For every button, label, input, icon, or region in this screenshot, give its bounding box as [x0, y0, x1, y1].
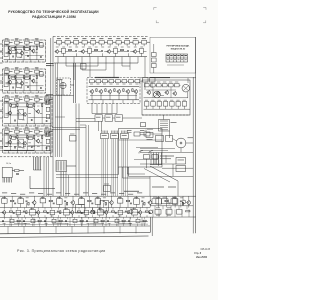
transistor VT19 [108, 89, 112, 94]
wire [166, 202, 168, 208]
tuned circuit box Z39 [114, 48, 118, 53]
PA value label 5 [176, 99, 179, 102]
band box Q15 [98, 210, 104, 215]
band label Q5 [30, 207, 34, 210]
bundle drop wire [47, 157, 49, 196]
wire [76, 53, 78, 56]
capacitor C25 [180, 200, 182, 203]
harness wire [111, 104, 113, 114]
lead [152, 106, 154, 109]
wire [146, 215, 148, 217]
wire [81, 217, 83, 226]
low label r 6 [38, 222, 41, 225]
wire [139, 208, 141, 210]
wire [98, 215, 100, 217]
PA resistor box 1 [151, 102, 155, 107]
capacitor C14 [101, 49, 103, 52]
screening can left A4 [4, 134, 8, 147]
wire [8, 49, 10, 59]
mesh wire [13, 106, 32, 108]
ladder trimmer box [46, 114, 50, 118]
filter can ZA24 [35, 70, 39, 73]
wire [132, 100, 134, 104]
wire [138, 41, 141, 43]
comb drop wire [115, 139, 117, 196]
wire [88, 217, 90, 219]
label above P8 [57, 196, 61, 199]
wire [135, 93, 137, 100]
right band lower wire [158, 209, 160, 217]
capacitor C26 [13, 212, 15, 215]
wire [101, 80, 103, 82]
filter can ZA43 [25, 130, 29, 133]
lead wire [6, 101, 8, 103]
lead [135, 44, 137, 46]
wire [12, 170, 14, 172]
wire [81, 57, 83, 70]
resistor R14 [34, 104, 35, 107]
wire [46, 94, 53, 96]
wire [65, 57, 67, 66]
svg-text:РУКОВОДСТВО ПО ТЕХНИЧЕСКОЙ ЭКС: РУКОВОДСТВО ПО ТЕХНИЧЕСКОЙ ЭКСПЛУАТАЦИИ [8, 10, 99, 14]
mesh wire [25, 85, 44, 87]
value label row2-9 [114, 46, 117, 49]
wire [62, 89, 64, 95]
wire [94, 80, 96, 82]
transistor VT3 [31, 49, 35, 54]
wire [56, 174, 118, 176]
info table columns [170, 54, 184, 62]
transistor VT10 [8, 140, 12, 145]
keying relay box K6 [146, 133, 153, 138]
vertical harness wire [85, 125, 87, 196]
wire [0, 51, 3, 53]
capacitor C20 [91, 202, 93, 205]
wire [163, 115, 165, 120]
filter can ZA33 [25, 98, 29, 101]
resistor R54 [143, 220, 146, 221]
screening can left A3 [4, 102, 8, 118]
connector comb XS1 body [101, 133, 109, 138]
wire [130, 41, 133, 43]
value label 9 [64, 196, 67, 199]
wire [36, 78, 38, 90]
label above P23 [173, 196, 177, 199]
choke box L21 [95, 115, 103, 122]
wire [16, 124, 18, 126]
filter can ZA44 [35, 130, 39, 133]
contact group K2.1 [149, 150, 153, 153]
wire [81, 223, 83, 226]
wire [75, 63, 77, 103]
resistor R20 [42, 136, 43, 139]
transistor VT14 [81, 49, 85, 54]
lead wire [16, 73, 18, 75]
band ground tick [55, 226, 57, 233]
wire [105, 208, 107, 210]
PA value label 3 [164, 99, 167, 102]
resistor R47 [145, 211, 148, 212]
ladder trimmer box [46, 132, 50, 136]
designator above U9 [125, 37, 129, 40]
bundle drop wire [43, 157, 45, 196]
capacitor C6 [39, 87, 42, 89]
svg-text:025-1145: 025-1145 [200, 249, 210, 251]
value label in A2 [25, 81, 28, 84]
wire [10, 215, 12, 217]
lead wire [36, 133, 38, 135]
comb drop wire [126, 139, 128, 196]
tuned circuit box Z31 [62, 48, 66, 53]
wire [116, 217, 118, 219]
wire [26, 203, 28, 208]
wire [113, 117, 116, 119]
switch hatch [57, 161, 65, 170]
connector pin comb [3, 178, 12, 183]
choke box L23 [115, 115, 123, 122]
wire [30, 208, 32, 210]
PA stage box U20 [145, 84, 150, 87]
wire [37, 208, 39, 210]
wire [58, 196, 60, 198]
wire [127, 202, 129, 208]
ground bus of A4 [4, 150, 51, 152]
wire [144, 223, 146, 226]
PA bottom dashed [142, 114, 190, 116]
wire [78, 215, 80, 217]
band jog wire 3 [90, 223, 104, 225]
wire [0, 132, 3, 134]
capacitor C30 [81, 212, 83, 215]
wire [9, 217, 11, 226]
wire [104, 51, 107, 53]
svg-text:14,5в: 14,5в [6, 163, 11, 165]
audio module title [95, 77, 119, 78]
wire [162, 206, 164, 210]
wire [109, 93, 111, 100]
svg-text:РЕГУЛИРОВКА ВЫХОДН.: РЕГУЛИРОВКА ВЫХОДН. [166, 44, 190, 47]
relay coil K1 [134, 132, 140, 136]
capacitor C35 [2, 219, 4, 222]
capacitor C8 [30, 119, 33, 121]
wire [111, 51, 114, 53]
coupling box A3 [45, 100, 49, 104]
wire [127, 93, 129, 100]
transistor VT16 [133, 49, 137, 54]
power connector box X1 [2, 168, 12, 178]
frame right-end vertical 2 [151, 217, 153, 236]
resistor R41 [43, 211, 46, 212]
harness wire [106, 104, 108, 114]
designator label above ZA35 [45, 94, 49, 97]
wire [43, 124, 45, 126]
wire [118, 167, 120, 175]
value label row2-7 [101, 46, 104, 49]
band label Q20 [132, 207, 136, 210]
wire [3, 215, 5, 217]
wire [38, 60, 40, 62]
coupling box A1 [40, 43, 44, 47]
wire [123, 217, 125, 219]
resistor R12 [17, 104, 18, 107]
wire [147, 41, 150, 43]
inter-block wire [46, 62, 54, 64]
band box Q10 [64, 210, 70, 215]
diag wire 2 [29, 48, 32, 51]
wire [19, 99, 22, 101]
band low label 13 [87, 222, 90, 225]
supply bus of A4 [4, 134, 51, 136]
wire [95, 217, 97, 219]
resistor R5 [36, 47, 37, 50]
wire [25, 124, 27, 126]
filter box Z40 [144, 155, 150, 159]
wire [153, 44, 155, 53]
band stage box P13 [95, 199, 101, 205]
PA label 5 [175, 81, 178, 84]
mesh wire [6, 114, 24, 116]
info table midline [166, 57, 188, 59]
schematic right border [195, 37, 197, 233]
PA resistor box 5 [176, 102, 180, 107]
resistor R29 [11, 200, 14, 201]
resistor R45 [111, 211, 114, 212]
wire [119, 139, 163, 141]
lead wire [26, 44, 28, 46]
wire [62, 41, 65, 43]
capacitor C3 [39, 56, 42, 58]
resistor R22 [95, 49, 98, 50]
harness bend wire [92, 113, 117, 115]
battery box GB1 [176, 158, 186, 165]
wire [41, 106, 43, 123]
capacitor C4 [12, 87, 15, 89]
RF stage box U10 [133, 40, 138, 44]
capacitor C9 [45, 120, 48, 122]
mesh wire [13, 136, 32, 138]
ladder trimmer box [46, 139, 50, 143]
wire [167, 84, 168, 86]
wire [38, 91, 40, 93]
resistor R9 [29, 76, 30, 79]
wire [0, 109, 3, 111]
second row box A2b [25, 77, 29, 80]
band box Q20 [132, 210, 138, 215]
band heading label [124, 191, 139, 192]
resistor R7 [15, 76, 16, 79]
wire [139, 214, 141, 217]
PA stage box U24 [169, 84, 174, 87]
wire [88, 196, 90, 200]
cable bend [34, 169, 42, 171]
wire [78, 51, 81, 53]
wire [119, 208, 121, 210]
wire [14, 78, 16, 90]
wire [128, 173, 146, 175]
wire [136, 147, 158, 149]
PA stage box U23 [163, 84, 168, 87]
cable bundle wire [40, 157, 42, 170]
wire [154, 159, 156, 164]
band label Q13b [84, 215, 87, 218]
vertical bus wire [50, 38, 52, 157]
spot label [22, 119, 24, 122]
transistor VT32 [2, 210, 6, 215]
audio bus wire [89, 85, 140, 87]
cable bundle wire [33, 157, 35, 170]
value label row2-13 [140, 46, 143, 49]
comb drop wire [105, 139, 107, 196]
wire [151, 82, 153, 88]
bottom band top bus [0, 195, 196, 197]
label stack a2 [127, 131, 132, 134]
connector comb XS2 teeth [112, 131, 118, 134]
IF transformer TA1 [17, 49, 22, 57]
PA mesh vert [152, 87, 154, 98]
audio stage box N1 [90, 80, 95, 83]
band right bus [150, 205, 193, 207]
resistor R25 [105, 89, 106, 92]
wire [67, 165, 77, 167]
wire [64, 208, 66, 210]
wire [3, 203, 5, 207]
band low label 19 [129, 222, 132, 225]
wire [3, 214, 5, 217]
resistor R33 [88, 200, 91, 201]
wire [89, 53, 91, 56]
supply bus of A2 [4, 74, 45, 76]
wire [82, 69, 106, 71]
wire [39, 42, 42, 44]
wire [69, 217, 71, 226]
capacitor C36 [23, 219, 25, 222]
low label r 12 [80, 222, 83, 225]
low label r 15 [101, 222, 104, 225]
designator label above ZA41 [5, 126, 9, 129]
capacitor C12 [45, 147, 48, 149]
label above P6 [41, 196, 45, 199]
transistor VT26 [173, 91, 177, 96]
mesh wire [25, 54, 44, 56]
cable bundle wire [36, 157, 38, 170]
connector label 3 [122, 134, 127, 137]
wire [30, 60, 32, 62]
wire [75, 104, 77, 197]
capacitor C17 [26, 200, 28, 203]
wire [81, 217, 83, 219]
low label r 9 [59, 222, 62, 225]
designator label above ZA33 [25, 94, 29, 97]
designator label above ZA31 [5, 94, 9, 97]
wire [41, 138, 43, 150]
wire [46, 223, 48, 226]
diag wire 2 [33, 138, 37, 141]
wire [169, 131, 171, 138]
transistor VT9 [36, 109, 40, 114]
designator label above ZA14 [35, 37, 39, 40]
filter can ZA31 [5, 98, 9, 101]
wire [149, 84, 150, 86]
IF transformer TA3 [19, 109, 24, 119]
lead wire [36, 44, 38, 46]
lead wire [16, 44, 18, 46]
wire [37, 215, 39, 217]
wire [100, 93, 102, 100]
value label row2-2 [69, 46, 72, 49]
filter can ZA22 [15, 70, 19, 73]
wire [44, 215, 46, 217]
wire [136, 204, 138, 207]
label right band 2 [168, 187, 176, 188]
value label in A4 [17, 141, 20, 144]
wire [91, 93, 93, 100]
wire [146, 159, 148, 168]
mesh wire [6, 53, 21, 55]
audio stage box N6 [122, 80, 127, 83]
band stage box P21 [156, 199, 162, 204]
mesh wire [12, 76, 28, 78]
PA stage box U25 [175, 84, 180, 87]
wire [143, 51, 146, 53]
wire [87, 41, 90, 43]
diag wire [15, 80, 18, 84]
designator label above ZA42 [15, 126, 19, 129]
wire [23, 78, 25, 90]
capacitor C11 [30, 146, 33, 148]
wire [141, 203, 143, 208]
lead [101, 44, 103, 46]
audio stage box N5 [116, 80, 121, 83]
band inter bus [0, 211, 150, 213]
band ground tick [23, 226, 25, 233]
value label row2-10 [121, 46, 124, 49]
wire [46, 63, 53, 65]
band right box B [162, 199, 169, 204]
RF stage box U7 [108, 40, 113, 44]
audio stage box N3 [103, 80, 108, 83]
wire [60, 223, 62, 226]
resistor R15 [42, 104, 43, 107]
wire [7, 60, 9, 62]
wire [140, 147, 175, 149]
screen partition dashed line [0, 156, 53, 158]
wire [7, 91, 9, 93]
harness jog [55, 116, 65, 118]
ladder trimmer box [46, 107, 50, 111]
capacitor C41 [128, 219, 130, 222]
value label in A2 [15, 81, 18, 84]
value label row2-1 [62, 46, 65, 49]
wire [22, 91, 24, 93]
wire [0, 140, 3, 142]
wire [18, 217, 20, 219]
wire [78, 104, 80, 197]
wire [7, 151, 9, 153]
lead [109, 44, 111, 46]
band stage box P3 [18, 199, 24, 204]
wire [96, 41, 99, 43]
band stage box P18 [134, 199, 140, 205]
choke box L22 [105, 115, 113, 122]
band jog wire 4 [118, 223, 132, 225]
wire [24, 208, 26, 210]
audio mesh wire [90, 95, 137, 97]
wire [19, 42, 22, 44]
wire [121, 57, 123, 66]
band label Q10 [64, 207, 68, 210]
wire [98, 51, 101, 53]
vertical harness wire [59, 80, 61, 157]
